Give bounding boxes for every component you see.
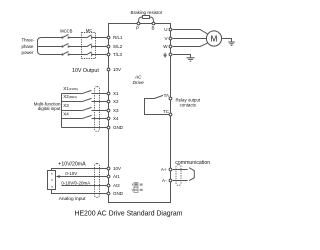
- svg-text:B: B: [151, 26, 154, 31]
- terminal T/L3: [107, 52, 122, 57]
- svg-text:10V: 10V: [113, 67, 121, 72]
- communication label: [175, 160, 210, 166]
- wire X4: [62, 118, 108, 120]
- svg-text:communication: communication: [175, 160, 210, 166]
- comm cable shield: [176, 165, 181, 186]
- svg-text:A-: A-: [162, 178, 167, 183]
- svg-text:P: P: [136, 26, 139, 31]
- svg-text:X2: X2: [113, 99, 119, 104]
- wire A-: [173, 180, 188, 182]
- svg-text:AI2: AI2: [113, 183, 120, 188]
- 0-10V/0-20mA label: [61, 181, 90, 186]
- svg-text:HE200 AC Drive Standard Diagra: HE200 AC Drive Standard Diagram: [74, 210, 182, 217]
- X2 input label: [63, 94, 77, 99]
- terminal X2: [107, 99, 119, 104]
- MCCB label: [60, 29, 73, 34]
- svg-text:M: M: [211, 34, 218, 43]
- terminal GND digital: [107, 125, 124, 130]
- terminal X3: [107, 108, 119, 113]
- digital cable shield: [95, 87, 100, 132]
- motor ground: [228, 42, 235, 45]
- svg-text:AC: AC: [134, 75, 142, 81]
- wire phase T: [42, 54, 108, 56]
- svg-text:0-10V: 0-10V: [65, 171, 77, 176]
- wire pot to 10V: [52, 169, 108, 171]
- X1 input label: [63, 86, 78, 91]
- terminal 10V analog: [107, 166, 121, 171]
- svg-text:U: U: [164, 27, 167, 32]
- svg-text:W: W: [163, 44, 168, 49]
- switch X4: [82, 115, 92, 118]
- wire AI2: [62, 185, 108, 187]
- source bundle brace: [38, 38, 42, 55]
- svg-text:TC: TC: [163, 109, 170, 114]
- breaker MCCB pole 2: [62, 43, 70, 47]
- terminal B: [151, 22, 154, 31]
- terminal R/L1: [107, 35, 123, 40]
- terminal GND analog: [107, 191, 124, 196]
- svg-text:R/L1: R/L1: [113, 35, 123, 40]
- AC Drive label: [133, 75, 145, 86]
- wire phase S: [42, 46, 108, 48]
- 10V output label: [72, 68, 99, 74]
- wire pot to GND: [52, 190, 108, 194]
- svg-text:10V Output: 10V Output: [72, 68, 99, 74]
- braking resistor R: [139, 16, 154, 23]
- braking resistor label: [131, 10, 163, 15]
- svg-text:X1(FWD): X1(FWD): [63, 86, 78, 91]
- terminal A-: [162, 178, 172, 183]
- X3 input label: [63, 103, 69, 108]
- svg-text:phase: phase: [22, 44, 35, 49]
- X4 input label: [63, 111, 69, 116]
- +10V/20mA label: [58, 161, 86, 167]
- relay output contacts label: [175, 98, 200, 108]
- svg-text:AI1: AI1: [113, 174, 120, 179]
- terminal X4: [107, 116, 119, 121]
- svg-text:Braking resistor: Braking resistor: [131, 10, 163, 15]
- breaker MCCB pole 3: [62, 51, 70, 55]
- wire X2: [62, 101, 108, 103]
- contactor MC pole 1: [87, 35, 92, 40]
- svg-text:X3: X3: [113, 108, 119, 113]
- svg-text:digital input: digital input: [38, 106, 62, 111]
- svg-text:Analog input: Analog input: [59, 196, 86, 202]
- wire A+: [173, 169, 188, 171]
- svg-text:X4: X4: [63, 111, 69, 116]
- svg-text:S/L2: S/L2: [113, 44, 123, 49]
- MC label: [86, 28, 93, 33]
- svg-text:+10V/20mA: +10V/20mA: [58, 161, 86, 167]
- svg-text:GND: GND: [113, 191, 124, 196]
- terminal U: [164, 27, 172, 32]
- terminal 10V output: [107, 67, 121, 72]
- 0-10V label: [65, 171, 77, 176]
- svg-text:10V: 10V: [113, 166, 121, 171]
- terminal S/L2: [107, 44, 123, 49]
- svg-text:TA: TA: [164, 93, 169, 98]
- title: [74, 210, 182, 217]
- PE ground wire: [173, 55, 191, 58]
- digital input common rail: [61, 94, 63, 128]
- svg-text:V: V: [164, 36, 167, 41]
- wire X1: [62, 93, 108, 95]
- terminal TA: [164, 93, 172, 100]
- breaker MCCB pole 1: [62, 34, 70, 38]
- switch X3: [82, 107, 92, 110]
- svg-text:X4: X4: [113, 116, 119, 121]
- wire W to motor: [173, 43, 208, 47]
- switch X1: [82, 90, 92, 93]
- PE ground: [187, 58, 195, 61]
- svg-text:MCCB: MCCB: [60, 29, 73, 34]
- svg-text:Drive: Drive: [133, 80, 145, 86]
- wire phase R: [42, 37, 108, 39]
- motor M: [206, 31, 221, 46]
- svg-text:contacts: contacts: [180, 103, 197, 108]
- wire V to motor: [173, 38, 207, 40]
- terminal W: [163, 44, 172, 49]
- contactor MC pole 2: [87, 44, 92, 49]
- contactor MC pole 3: [87, 52, 92, 57]
- analog cable shield: [95, 164, 100, 198]
- terminal X1: [107, 91, 119, 96]
- svg-text:GND: GND: [113, 125, 124, 130]
- terminal AI2: [107, 183, 120, 188]
- multi-function digital input label: [34, 102, 62, 112]
- wire U to motor: [173, 30, 208, 35]
- wire X3: [62, 110, 108, 112]
- svg-text:A+: A+: [161, 167, 167, 172]
- relay contact K1: [145, 95, 170, 114]
- three-phase power label: [22, 38, 35, 56]
- motor ground wire: [222, 39, 232, 43]
- svg-text:power: power: [22, 50, 34, 55]
- terminal PE: [169, 53, 172, 56]
- terminal AI1: [107, 174, 120, 179]
- analog input label: [59, 196, 86, 202]
- wiper arrow wire to AI1: [56, 175, 107, 178]
- svg-text:Three-: Three-: [22, 38, 35, 43]
- switch X2: [82, 98, 92, 101]
- jumper J2: [132, 183, 143, 193]
- contactor MC dashed box: [82, 33, 96, 59]
- AC drive U1 main box: [109, 24, 171, 203]
- comm cable bracket: [189, 168, 194, 181]
- svg-text:T/L3: T/L3: [113, 52, 123, 57]
- svg-text:X2(REV): X2(REV): [63, 94, 77, 99]
- svg-text:0-10V/0-20mA: 0-10V/0-20mA: [61, 181, 90, 186]
- svg-text:X3: X3: [63, 103, 69, 108]
- terminal TC: [163, 109, 172, 116]
- svg-text:X1: X1: [113, 91, 119, 96]
- terminal P: [136, 22, 140, 31]
- wire GND digital: [62, 127, 108, 129]
- potentiometer RP: [48, 171, 56, 190]
- PE terminal symbol: [163, 53, 167, 58]
- terminal A+: [161, 167, 172, 172]
- terminal V: [164, 36, 171, 41]
